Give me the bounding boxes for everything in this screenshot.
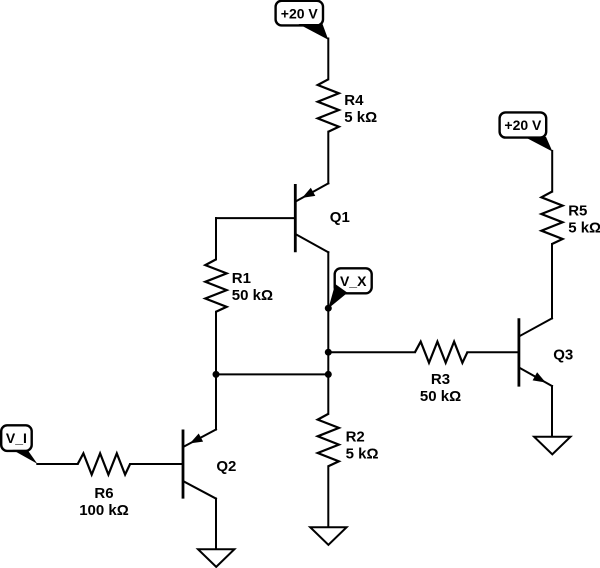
wire R6 to Q2 base bbox=[130, 463, 183, 465]
svg-text:V_X: V_X bbox=[340, 273, 367, 289]
wire junction row to main column bbox=[216, 373, 328, 375]
transistor Q2 (PNP) bbox=[183, 430, 236, 499]
transistor Q1 (PNP) bbox=[295, 183, 350, 252]
resistor R3 50 kΩ bbox=[415, 342, 467, 405]
transistor Q3 (NPN) bbox=[519, 318, 573, 386]
wire Q2 emitter to ground bbox=[215, 499, 217, 550]
resistor R2 5 kΩ bbox=[318, 414, 379, 466]
power flag +20V (top right net) bbox=[500, 112, 553, 151]
wire +20V flag to R4 top bbox=[327, 39, 329, 80]
resistor R4 5 kΩ bbox=[318, 79, 377, 131]
wire R4 bottom to Q1 emitter bbox=[327, 132, 329, 184]
svg-text:R4: R4 bbox=[344, 92, 364, 109]
node flag V_I bbox=[1, 425, 37, 464]
node junction dot R3 row bbox=[325, 349, 332, 356]
resistor R1 50 kΩ bbox=[205, 259, 273, 311]
power flag +20V (top left net) bbox=[276, 1, 329, 40]
resistor R5 5 kΩ bbox=[541, 192, 600, 244]
svg-text:100 kΩ: 100 kΩ bbox=[79, 502, 129, 519]
node V_X junction dot bbox=[325, 305, 332, 312]
svg-text:Q1: Q1 bbox=[330, 209, 350, 226]
svg-text:50 kΩ: 50 kΩ bbox=[420, 388, 461, 405]
svg-text:+20 V: +20 V bbox=[504, 117, 542, 133]
node flag V_X bbox=[328, 268, 371, 308]
resistor R6 100 kΩ bbox=[78, 453, 130, 518]
svg-text:Q3: Q3 bbox=[553, 347, 573, 364]
svg-text:50 kΩ: 50 kΩ bbox=[232, 287, 273, 304]
svg-text:V_I: V_I bbox=[6, 430, 27, 446]
wire R2 bottom to ground bbox=[327, 466, 329, 527]
svg-text:Q2: Q2 bbox=[216, 458, 236, 475]
node junction dot left bbox=[213, 371, 220, 378]
svg-text:5 kΩ: 5 kΩ bbox=[344, 109, 377, 126]
svg-text:R2: R2 bbox=[346, 429, 365, 446]
wire Q3 emitter to ground bbox=[551, 386, 553, 437]
svg-text:R5: R5 bbox=[568, 202, 587, 219]
wire Q1 base to left column bbox=[216, 217, 295, 219]
svg-text:R3: R3 bbox=[431, 371, 450, 388]
svg-text:R6: R6 bbox=[94, 485, 113, 502]
ground below R2 bbox=[310, 527, 346, 545]
ground below Q2 bbox=[198, 549, 234, 567]
wire R1 bottom to Q2 collector bbox=[215, 312, 217, 430]
wire R3 to Q3 base bbox=[467, 351, 517, 353]
wire Q1 collector down main column bbox=[327, 252, 329, 414]
node junction dot bottom row bbox=[325, 371, 332, 378]
wire main column to R3 bbox=[328, 351, 415, 353]
svg-text:R1: R1 bbox=[232, 270, 251, 287]
wire V_I flag to R6 bbox=[37, 463, 77, 465]
wire R5 top to +20V flag bbox=[551, 151, 553, 192]
ground below Q3 bbox=[534, 437, 570, 455]
wire Q3 collector up to R5 bbox=[551, 244, 553, 318]
svg-text:5 kΩ: 5 kΩ bbox=[568, 220, 600, 237]
svg-text:5 kΩ: 5 kΩ bbox=[346, 446, 379, 463]
svg-text:+20 V: +20 V bbox=[281, 5, 319, 21]
wire left column down to R1 bbox=[215, 218, 217, 259]
